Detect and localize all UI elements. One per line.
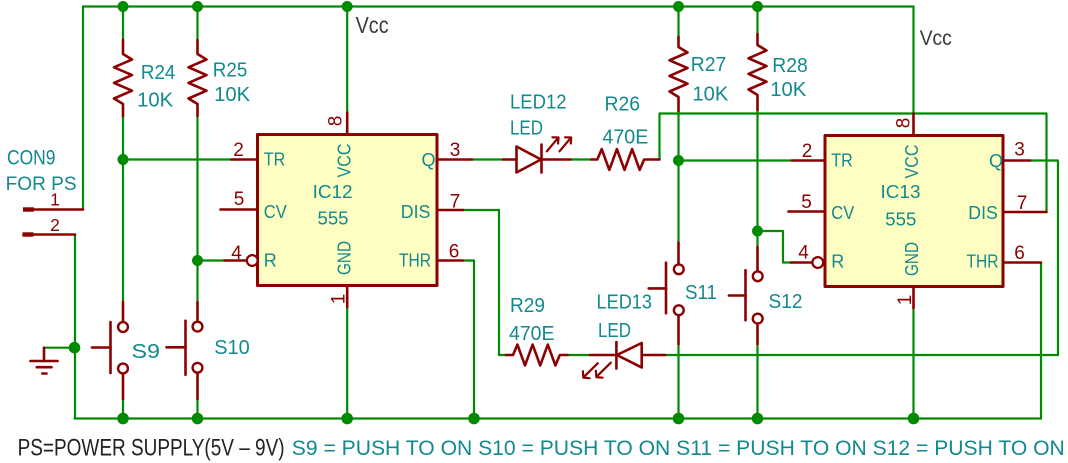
wire top bus to R27: [677, 7, 679, 38]
junction node B R25/pin4/S10: [192, 255, 203, 266]
junction top bus at R24: [118, 1, 129, 12]
wire S10 bottom to bus: [196, 399, 198, 419]
svg-text:R: R: [264, 251, 277, 271]
svg-text:R27: R27: [691, 54, 727, 76]
svg-text:CV: CV: [264, 202, 287, 222]
switch S12: [729, 247, 763, 344]
junction top bus at R27: [673, 1, 684, 12]
svg-text:LED: LED: [598, 320, 631, 342]
svg-text:7: 7: [450, 192, 461, 213]
connector CON9 pin 1 lead: [34, 208, 83, 211]
svg-text:S12: S12: [769, 291, 803, 313]
svg-text:1: 1: [895, 295, 916, 306]
svg-text:555: 555: [885, 210, 916, 230]
svg-text:1: 1: [329, 294, 350, 305]
IC op U IC13 555 body: [825, 136, 1003, 287]
wire IC13 THR down to bus right corner: [1040, 263, 1042, 419]
svg-text:S9: S9: [132, 341, 161, 363]
svg-text:7: 7: [1017, 193, 1028, 214]
IC12 pin 7 DIS lead: [437, 209, 463, 212]
IC12 pin 8 VCC lead: [346, 113, 349, 135]
connector CON9 pin 2 pad: [22, 232, 33, 236]
svg-text:6: 6: [449, 242, 460, 263]
svg-text:S11: S11: [685, 282, 717, 304]
svg-text:CV: CV: [831, 203, 854, 223]
svg-text:10K: 10K: [214, 84, 251, 106]
wire Vcc top bus: [83, 5, 914, 7]
switch S11: [649, 243, 684, 345]
resistor R29: [506, 345, 568, 366]
resistor R25: [189, 40, 207, 116]
resistor R27: [670, 37, 688, 111]
svg-text:2: 2: [802, 141, 813, 162]
svg-text:Vcc: Vcc: [920, 27, 952, 50]
svg-text:3: 3: [450, 140, 461, 161]
wire node A to IC12 TR: [123, 158, 233, 160]
wire node C to IC13 TR: [679, 159, 793, 161]
IC12 pin 6 THR lead: [437, 259, 463, 262]
svg-text:6: 6: [1014, 243, 1025, 264]
wire R28 down to node D: [756, 110, 758, 247]
resistor R24: [114, 40, 132, 116]
wire left vertical to CON9 pin1: [82, 7, 84, 210]
wire S12 bottom to bus: [756, 344, 758, 419]
wire top bus to R28: [756, 7, 758, 35]
IC12 pin 3 Q lead: [437, 158, 472, 161]
junction bus at S11: [673, 413, 685, 425]
svg-text:TR: TR: [264, 150, 286, 170]
wire IC13 GND pin1 to bus: [912, 308, 914, 419]
svg-text:470E: 470E: [602, 127, 648, 149]
IC13 pin 4 invert bubble: [812, 257, 823, 268]
wire top bus to R25: [196, 7, 198, 41]
svg-text:LED: LED: [510, 117, 543, 139]
wire top bus corner to IC13 VCC pin8: [912, 7, 914, 114]
IC12 pin 4 invert bubble: [247, 255, 258, 266]
junction bus at S10: [192, 413, 204, 425]
svg-text:GND: GND: [902, 242, 922, 276]
wire top bus to IC12 VCC pin8: [346, 7, 348, 113]
wire IC12 DIS down to R29: [463, 210, 506, 355]
svg-text:VCC: VCC: [902, 145, 922, 179]
wire IC12 GND pin1 to bus: [346, 307, 348, 419]
IC12 pin 5 CV lead: [221, 208, 258, 211]
svg-text:IC13: IC13: [881, 182, 921, 202]
svg-text:4: 4: [231, 243, 242, 264]
junction bus at S9: [117, 413, 129, 425]
IC13 pin 7 DIS lead: [1003, 211, 1047, 214]
svg-text:8: 8: [894, 118, 915, 129]
svg-text:8: 8: [326, 116, 347, 127]
svg-text:R29: R29: [510, 295, 545, 317]
IC13 pin 5 CV lead: [789, 210, 826, 213]
IC12 pin 2 TR lead: [232, 158, 258, 161]
switch S9: [92, 302, 128, 399]
IC12 pin 4 R lead: [225, 259, 247, 262]
svg-text:GND: GND: [335, 241, 355, 275]
svg-text:10K: 10K: [137, 90, 174, 112]
junction top bus at R28: [752, 1, 763, 12]
wire bottom GND bus: [75, 417, 1042, 419]
resistor R26: [592, 149, 660, 170]
IC13 pin 3 Q lead: [1003, 159, 1030, 162]
svg-text:Q: Q: [989, 151, 1003, 171]
svg-text:555: 555: [318, 209, 349, 229]
svg-text:DIS: DIS: [968, 203, 998, 223]
svg-text:10K: 10K: [770, 79, 807, 101]
IC12 pin 1 GND lead: [346, 286, 349, 308]
wire IC12 THR down to bus: [463, 261, 474, 419]
junction node A R24/TR/S9: [118, 154, 129, 165]
wire R29 to LED13: [568, 354, 591, 356]
wire R27 down through node C to S11: [677, 111, 679, 243]
junction bus at THR wire: [468, 413, 480, 425]
svg-text:CON9: CON9: [7, 146, 56, 170]
wire IC13 Q right and down to LED13 row: [1030, 161, 1058, 356]
connector CON9 pin 1 pad: [23, 207, 34, 211]
connector CON9 pin 2 lead: [33, 233, 75, 236]
svg-text:2: 2: [50, 215, 60, 235]
svg-text:R: R: [831, 252, 844, 272]
svg-text:DIS: DIS: [401, 202, 431, 222]
wire top bus to R24: [122, 7, 124, 41]
ground symbol: [31, 348, 58, 374]
wire IC12 Q to LED12: [472, 158, 503, 160]
wire ground stub: [44, 347, 75, 349]
svg-text:470E: 470E: [509, 323, 555, 345]
wire node B to IC12 pin4: [198, 259, 227, 261]
svg-text:S9 = PUSH TO ON S10 = PUSH TO: S9 = PUSH TO ON S10 = PUSH TO ON S11 = P…: [292, 437, 1065, 460]
switch S10: [167, 302, 203, 399]
junction bus at S12: [752, 413, 764, 425]
junction node D R28/pin4-13/S12: [752, 226, 763, 237]
svg-text:PS=POWER SUPPLY(5V – 9V): PS=POWER SUPPLY(5V – 9V): [18, 435, 285, 462]
svg-text:S10: S10: [214, 337, 250, 359]
resistor R28: [749, 34, 767, 110]
IC op U IC12 555 body: [258, 135, 438, 286]
svg-text:10K: 10K: [692, 84, 729, 106]
wire R24 to node A and S9: [122, 116, 124, 302]
LED LED13: [583, 342, 665, 378]
svg-text:THR: THR: [399, 251, 431, 271]
svg-text:4: 4: [798, 243, 809, 264]
IC13 pin 6 THR lead: [1003, 261, 1041, 264]
wire node D elbow to IC13 pin4: [758, 231, 792, 263]
wire S11 bottom to bus: [677, 344, 679, 419]
svg-text:2: 2: [233, 140, 244, 161]
wire S9 bottom to bus: [122, 399, 124, 419]
IC13 pin 1 GND lead: [912, 287, 915, 309]
svg-text:TR: TR: [831, 151, 853, 171]
svg-text:R26: R26: [605, 94, 641, 116]
junction top bus at R25: [192, 1, 203, 12]
junction bus at IC12 GND: [341, 413, 353, 425]
svg-text:5: 5: [801, 192, 812, 213]
IC13 pin 2 TR lead: [792, 159, 825, 162]
junction node C R27/TR13/S11: [673, 155, 684, 166]
svg-text:VCC: VCC: [335, 144, 355, 178]
svg-text:R25: R25: [213, 60, 248, 82]
svg-text:3: 3: [1014, 140, 1025, 161]
svg-text:Q: Q: [422, 150, 436, 170]
junction top bus at IC12 pin8: [342, 1, 353, 12]
IC13 pin 4 R lead: [791, 261, 812, 264]
wire CON9 pin2 down to ground node: [74, 235, 76, 348]
LED LED12: [503, 137, 571, 172]
svg-text:5: 5: [234, 189, 245, 210]
junction bus at IC13 GND: [908, 413, 920, 425]
svg-text:IC12: IC12: [313, 182, 353, 202]
svg-text:LED13: LED13: [597, 292, 653, 314]
wire LED13 across to Q IC13 vertical: [665, 354, 1058, 356]
svg-text:R28: R28: [772, 55, 808, 77]
svg-text:R24: R24: [141, 62, 176, 84]
junction ground node: [69, 342, 81, 354]
svg-text:FOR PS: FOR PS: [6, 173, 77, 195]
svg-text:LED12: LED12: [510, 92, 567, 114]
svg-text:Vcc: Vcc: [356, 12, 389, 38]
svg-text:THR: THR: [967, 252, 999, 272]
wire ground node to bottom bus: [74, 348, 76, 419]
wire R26 up and across to IC13 DIS: [660, 114, 1047, 213]
wire LED12 to R26: [571, 158, 592, 160]
wire R25 to node B and S10: [196, 116, 198, 302]
IC13 pin 8 VCC lead: [912, 114, 915, 136]
